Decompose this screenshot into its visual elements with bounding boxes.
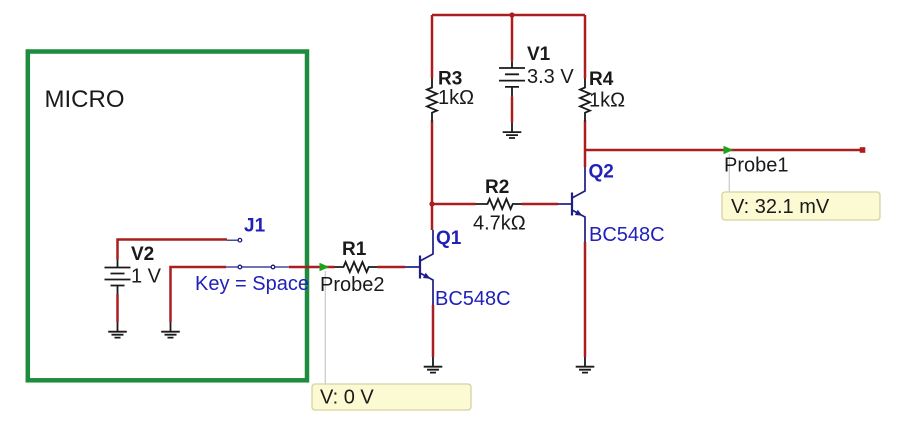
svg-text:V: 0 V: V: 0 V (320, 387, 374, 409)
ground (V2) (108, 322, 127, 338)
svg-text:V2: V2 (131, 244, 154, 265)
wire top rail V1 positive (432, 14, 585, 17)
wire V1 top (511, 15, 514, 61)
wire R3 to node A (431, 121, 434, 231)
node junction top rail / V1 (509, 12, 514, 17)
battery V2 (105, 244, 162, 294)
wire R2 right to Q2 base (522, 203, 559, 206)
switch J1 (195, 215, 309, 295)
svg-text:3.3 V: 3.3 V (527, 66, 574, 88)
resistor R3 (427, 68, 474, 121)
wire output to Probe1 (585, 149, 863, 152)
wire R1 left from switch (289, 266, 335, 269)
wire Q1 emitter to ground (432, 305, 435, 357)
svg-text:BC548C: BC548C (589, 224, 665, 246)
svg-text:J1: J1 (244, 215, 266, 236)
subcircuit box MICRO (28, 52, 307, 381)
resistor R4 (580, 69, 625, 122)
wire Q2 emitter to ground (584, 242, 587, 357)
wire R4 to Q2 collector (584, 121, 587, 168)
ground (Q2) (576, 357, 595, 373)
svg-text:V: 32.1 mV: V: 32.1 mV (731, 196, 830, 218)
transistor Q1 (405, 228, 511, 310)
ground (J1) (161, 322, 180, 338)
probe readout V: 0 V (312, 384, 471, 410)
svg-text:Probe1: Probe1 (724, 155, 789, 177)
wire top rail to R3 (431, 15, 434, 79)
svg-text:R4: R4 (589, 69, 614, 90)
svg-text:MICRO: MICRO (45, 86, 125, 113)
resistor R1 (335, 239, 378, 272)
svg-text:1kΩ: 1kΩ (589, 90, 625, 112)
wire end pin (860, 147, 866, 153)
svg-text:V1: V1 (527, 44, 551, 65)
svg-text:1kΩ: 1kΩ (438, 87, 474, 109)
transistor Q2 (558, 161, 665, 246)
svg-text:Q2: Q2 (589, 161, 614, 182)
wire V2 bottom to ground (116, 294, 119, 322)
battery V1 (499, 44, 574, 97)
probe Probe2 (320, 263, 385, 384)
wire V1 bottom to ground (511, 97, 514, 123)
wire R1 right to Q1 base (378, 266, 406, 269)
svg-text:1 V: 1 V (131, 266, 162, 288)
ground (V1) (503, 122, 522, 138)
wire ground to J1 lower throw (171, 267, 227, 322)
wire top rail to R4 (584, 15, 587, 79)
resistor R2 (473, 177, 526, 235)
probe readout V: 32.1 mV (722, 192, 880, 220)
ground (Q1) (424, 357, 443, 373)
svg-text:R1: R1 (342, 239, 367, 260)
svg-text:R2: R2 (485, 177, 509, 198)
wire V2 top to J1 throw (118, 240, 228, 260)
svg-text:Q1: Q1 (436, 228, 462, 249)
svg-text:Probe2: Probe2 (320, 274, 385, 296)
svg-text:4.7kΩ: 4.7kΩ (473, 213, 526, 235)
svg-text:BC548C: BC548C (435, 288, 511, 310)
wire R2 left (432, 203, 476, 206)
probe Probe1 (724, 146, 789, 192)
svg-text:Key = Space: Key = Space (195, 273, 309, 295)
node A junction R3/R2/Q1 (429, 201, 434, 206)
